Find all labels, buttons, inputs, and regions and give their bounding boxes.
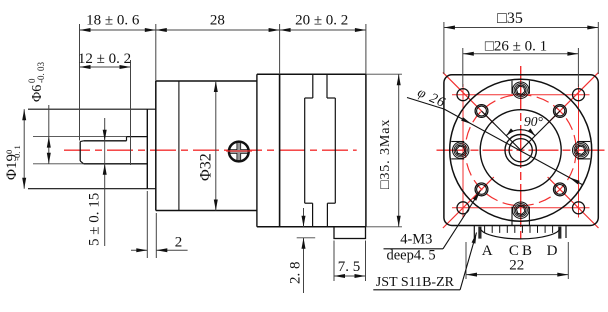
- svg-text:Φ32: Φ32: [198, 153, 215, 181]
- svg-text:-0. 03: -0. 03: [36, 62, 46, 83]
- svg-text:2: 2: [175, 235, 183, 251]
- svg-text:20 ± 0. 2: 20 ± 0. 2: [295, 13, 348, 29]
- svg-text:90°: 90°: [524, 114, 544, 129]
- svg-text:A: A: [482, 243, 493, 259]
- svg-text:2. 8: 2. 8: [288, 262, 304, 285]
- svg-text:18 ± 0. 6: 18 ± 0. 6: [86, 13, 140, 29]
- svg-text:JST S11B-ZR: JST S11B-ZR: [376, 275, 455, 290]
- svg-text:□35: □35: [497, 10, 523, 27]
- svg-text:deep4. 5: deep4. 5: [387, 248, 436, 264]
- svg-text:□35. 3Max: □35. 3Max: [378, 119, 393, 189]
- svg-text:28: 28: [210, 13, 225, 29]
- svg-text:□26 ± 0. 1: □26 ± 0. 1: [485, 39, 547, 55]
- svg-text:22: 22: [509, 258, 524, 274]
- svg-text:12 ± 0. 2: 12 ± 0. 2: [78, 51, 131, 67]
- svg-text:5 ± 0. 15: 5 ± 0. 15: [87, 193, 103, 246]
- svg-text:Φ6: Φ6: [30, 85, 45, 102]
- svg-text:7. 5: 7. 5: [338, 259, 361, 275]
- svg-text:D: D: [547, 243, 558, 259]
- svg-text:4-M3: 4-M3: [400, 231, 432, 247]
- svg-text:Φ190-0. 1: Φ190-0. 1: [4, 145, 22, 180]
